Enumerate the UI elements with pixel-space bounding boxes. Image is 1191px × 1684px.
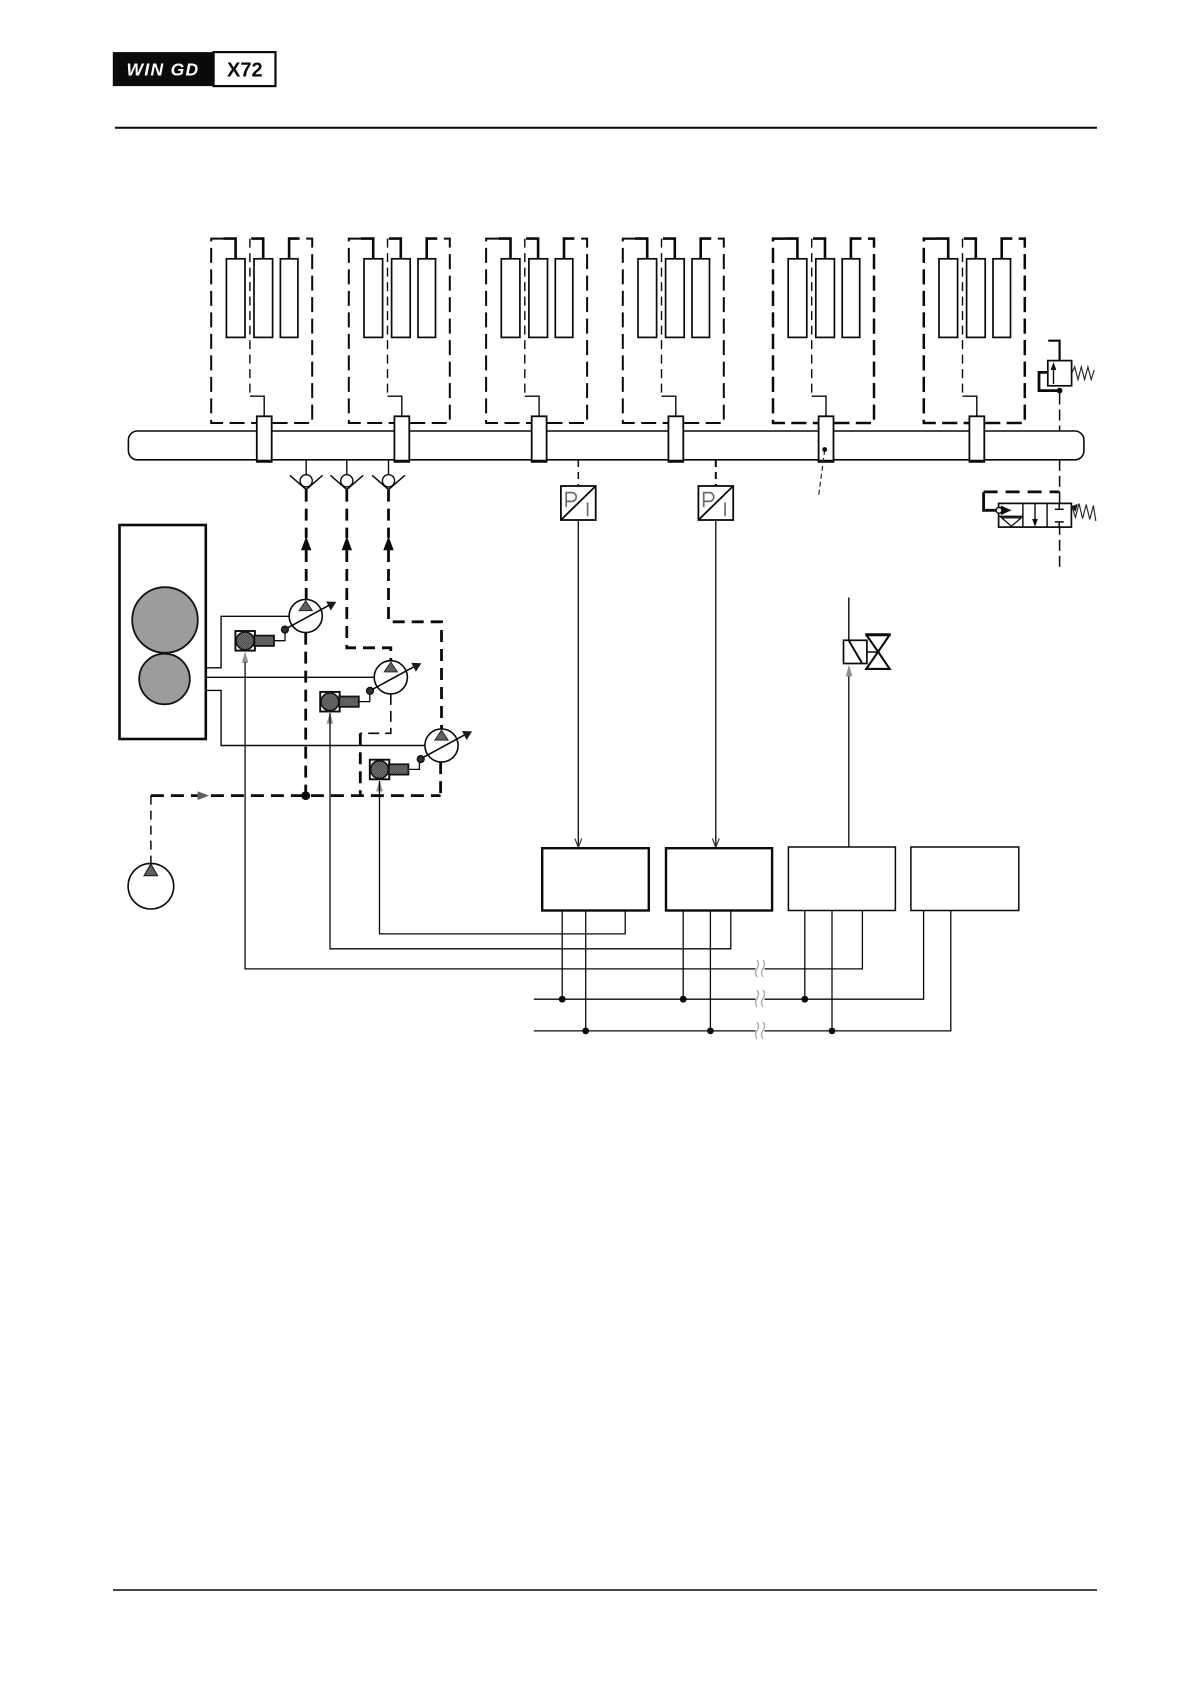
rail leader line — [818, 450, 824, 498]
feed pump — [128, 863, 174, 909]
flow arrow — [198, 791, 210, 800]
control line to box3 — [848, 676, 850, 847]
junction dot bus2-box1 — [582, 1028, 589, 1035]
pump3 drain line — [439, 762, 442, 796]
junction dot bus2-box2 — [707, 1028, 714, 1035]
signal line PT2 to box2 — [715, 520, 717, 847]
actuator 2 — [320, 692, 370, 724]
actuator 1 — [235, 631, 285, 663]
line break marks — [756, 960, 765, 1039]
suction line A to pump1 — [206, 616, 289, 668]
pump1 drain line — [304, 633, 307, 796]
feed pump stub — [150, 796, 152, 863]
supply line pump1 to check valve 1 — [305, 550, 308, 600]
supply line pump3 to check valve 3 — [389, 550, 442, 729]
signal line PT1 to box1 — [577, 520, 579, 847]
control box 1 — [542, 848, 649, 910]
cylinder unit 6 — [924, 239, 1025, 423]
cylinder unit 4 — [623, 239, 724, 462]
box2 pins — [683, 911, 710, 1031]
control box 2 — [666, 848, 772, 910]
pressure sensor PT1 stub — [577, 460, 579, 486]
bus line 1 — [534, 911, 924, 1000]
svg-text:WIN GD: WIN GD — [127, 60, 200, 80]
junction dot bus1-box2 — [680, 996, 687, 1003]
bus line 2 — [534, 911, 951, 1031]
pressure relief valve — [1039, 341, 1094, 394]
main drain manifold line — [151, 794, 441, 797]
junction dot bus1-box3 — [801, 996, 808, 1003]
shutoff valve — [865, 635, 891, 669]
bottom rule — [113, 1589, 1097, 1591]
junction dot bus2-box3 — [829, 1028, 836, 1035]
check valve 1 — [290, 460, 323, 550]
throttle unit feed line — [848, 598, 850, 641]
oil supply unit box — [120, 525, 206, 739]
servo pump 1 — [281, 599, 336, 633]
common rail — [128, 431, 1084, 460]
pump2 drain line — [360, 694, 391, 733]
servo pump 3 — [417, 729, 472, 763]
supply unit wheel big — [132, 587, 198, 653]
solenoid valve 3/2 — [996, 503, 1096, 527]
box3 pins — [805, 911, 832, 1031]
junction dot bus1-box1 — [559, 996, 566, 1003]
cylinder unit 3 — [486, 239, 587, 462]
throttle orifice — [844, 640, 867, 663]
cylinder unit 2 — [349, 239, 450, 462]
box1 pins — [562, 911, 586, 1031]
relief valve drain dashed line — [1059, 394, 1061, 432]
solenoid pilot line — [984, 492, 997, 510]
control box 4 — [911, 847, 1019, 911]
supply unit wheel small — [139, 654, 190, 705]
pressure sensor PT2 stub — [715, 460, 717, 486]
suction line C to pump3 — [206, 690, 425, 745]
pressure sensor PT2 — [698, 486, 733, 520]
control line actuator3 from box1 — [380, 781, 626, 934]
throttle flow arrow — [846, 665, 853, 677]
check valve 3 — [372, 460, 405, 550]
pressure sensor PT1 — [561, 486, 596, 520]
top rule — [115, 127, 1097, 129]
X72 type box — [214, 52, 276, 86]
cylinder unit 1 — [211, 239, 312, 462]
supply line pump2 to check valve 2 — [347, 550, 391, 661]
svg-text:X72: X72 — [227, 60, 263, 82]
control line actuator1 from box3 — [245, 662, 862, 969]
cylinder unit 5 — [773, 239, 874, 423]
suction line B to pump2 — [206, 676, 374, 678]
WinGD logo black box — [113, 52, 214, 86]
check valve 2 — [330, 460, 363, 550]
junction — [301, 791, 310, 800]
control box 3 — [788, 847, 895, 911]
rail end dashed line — [1059, 460, 1061, 568]
control line actuator2 from box2 — [330, 713, 731, 949]
actuator 3 — [370, 760, 420, 792]
servo pump 2 — [367, 661, 422, 695]
